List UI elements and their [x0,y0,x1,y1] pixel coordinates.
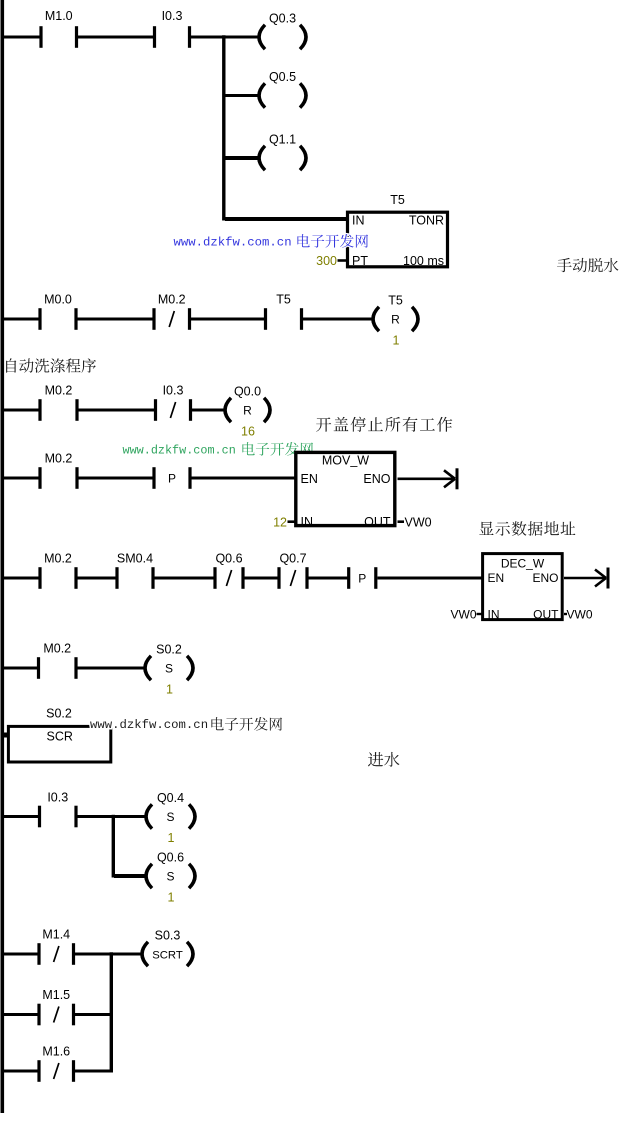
svg-text:M0.2: M0.2 [43,642,71,656]
wire [78,36,153,39]
svg-text:S0.2: S0.2 [156,643,182,657]
wire [3,733,8,738]
contact Q0.6 [213,552,244,589]
contact M0.2 [38,552,77,589]
wire [245,577,280,580]
svg-text:Q0.4: Q0.4 [157,791,184,805]
svg-text:DEC_W: DEC_W [501,557,545,571]
annotation 进水 [368,752,399,767]
svg-text:PT: PT [352,254,368,268]
svg-text:1: 1 [166,683,173,697]
svg-text:300: 300 [316,254,337,268]
svg-text:Q0.5: Q0.5 [269,70,296,84]
wire [114,874,145,878]
watermark 电子开发网 (dark) [211,717,282,731]
contact SM0.4 [115,552,154,589]
wire [155,577,216,580]
contact M1.0 [39,9,78,48]
svg-text:R: R [243,404,252,418]
svg-text:P: P [168,472,176,486]
svg-text:ENO: ENO [532,571,558,585]
annotation 手动脱水 [557,258,618,272]
contact M0.2 [152,293,191,330]
wire [3,667,39,670]
svg-text:Q0.0: Q0.0 [234,385,261,399]
svg-text:Q0.6: Q0.6 [157,851,184,865]
contact P [347,567,377,589]
timer T5 TONR box [348,193,448,268]
contact M1.4 [37,928,75,965]
svg-text:M1.5: M1.5 [42,988,70,1002]
SCR box S0.2 [8,707,110,763]
coil Q0.3 [259,12,306,50]
svg-text:T5: T5 [388,294,403,308]
wire [303,318,373,321]
svg-text:TONR: TONR [409,214,444,228]
svg-text:M1.6: M1.6 [42,1045,70,1059]
coil S0.2 [145,643,193,697]
svg-text:M0.2: M0.2 [44,552,72,566]
branch node [112,815,115,878]
svg-text:SCR: SCR [47,730,73,744]
wire [3,1013,40,1016]
svg-text:M1.0: M1.0 [45,9,73,23]
svg-text:12: 12 [273,516,287,530]
wire [225,94,259,97]
branch node [110,952,113,1072]
wire [192,409,225,412]
svg-text:R: R [391,313,400,327]
coil Q1.1 [259,133,306,171]
svg-text:T5: T5 [390,193,405,207]
coil Q0.6 [146,851,195,905]
left power rail [1,0,5,1113]
wire [288,520,296,523]
coil T5 [373,294,418,348]
wire [3,1070,40,1073]
svg-text:100 ms: 100 ms [403,254,444,268]
svg-text:VW0: VW0 [567,608,593,622]
svg-text:M0.2: M0.2 [158,293,186,307]
svg-text:M1.4: M1.4 [42,928,70,942]
wire [225,156,259,160]
wire [75,1070,112,1073]
svg-text:I0.3: I0.3 [47,791,68,805]
contact M0.0 [38,293,77,330]
svg-text:IN: IN [488,608,500,622]
coil Q0.4 [146,791,195,845]
wire [75,1013,112,1016]
wire [3,953,40,956]
watermark 电子开发网 (blue) [297,234,368,248]
open branch arrow [444,468,459,489]
svg-text:M0.2: M0.2 [45,384,73,398]
wire [78,577,118,580]
svg-text:Q0.3: Q0.3 [269,12,296,26]
watermark 电子开发网 (green) [242,442,313,456]
contact M0.2 [38,384,78,421]
contact M0.2 [38,452,78,489]
svg-text:P: P [358,572,366,586]
svg-text:Q0.6: Q0.6 [215,552,242,566]
svg-text:EN: EN [488,571,505,585]
wire [309,577,350,580]
contact T5 [264,293,303,330]
contact I0.3 [154,384,192,421]
svg-text:S: S [166,810,174,824]
contact M1.6 [37,1045,75,1082]
wire [79,477,155,480]
svg-text:SCRT: SCRT [152,949,183,961]
svg-text:1: 1 [168,891,175,905]
svg-text:ENO: ENO [363,472,390,486]
svg-text:S: S [165,662,173,676]
annotation 显示数据地址 [479,521,575,536]
svg-text:www.dzkfw.com.cn: www.dzkfw.com.cn [123,444,236,458]
svg-text:M0.2: M0.2 [45,452,73,466]
MOV_W box [296,452,395,528]
svg-text:S0.3: S0.3 [155,929,181,943]
svg-text:Q0.7: Q0.7 [279,552,306,566]
svg-text:IN: IN [352,214,365,228]
annotation 开盖停止所有工作 [316,417,452,432]
wire [398,477,454,480]
svg-text:S: S [166,870,174,884]
contact M1.5 [37,988,75,1025]
wire [192,477,297,480]
wire [378,577,484,580]
wire [3,318,40,321]
wire [564,577,605,580]
wire [3,409,40,412]
wire [477,613,483,615]
wire [79,409,156,412]
svg-text:MOV_W: MOV_W [322,454,369,468]
DEC_W box [483,554,563,622]
wire [78,667,146,670]
svg-text:M0.0: M0.0 [44,293,72,307]
svg-text:I0.3: I0.3 [163,384,184,398]
wire [3,815,40,818]
svg-text:OUT: OUT [533,608,559,622]
contact Q0.7 [277,552,308,589]
svg-text:VW0: VW0 [405,516,432,530]
wire [3,36,40,39]
contact I0.3 [38,791,78,828]
svg-text:SM0.4: SM0.4 [117,552,153,566]
svg-text:Q1.1: Q1.1 [269,133,296,147]
wire [78,815,146,818]
svg-text:S0.2: S0.2 [46,707,72,721]
contact M0.2 [37,642,78,679]
contact I0.3 [153,9,191,48]
wire [75,953,142,956]
wire [398,520,405,523]
svg-text:1: 1 [393,334,400,348]
svg-text:1: 1 [168,831,175,845]
branch node [222,35,225,220]
wire [225,217,347,221]
svg-text:IN: IN [301,515,314,529]
svg-text:16: 16 [241,425,255,439]
svg-text:www.dzkfw.com.cn: www.dzkfw.com.cn [174,236,292,250]
svg-text:I0.3: I0.3 [162,9,183,23]
svg-text:VW0: VW0 [450,608,476,622]
wire [191,36,259,39]
svg-text:OUT: OUT [364,515,391,529]
contact P [152,467,191,489]
open branch arrow [595,568,610,589]
svg-text:T5: T5 [276,293,291,307]
wire [338,259,347,262]
coil Q0.0 [225,385,270,439]
wire [564,613,567,615]
wire [3,577,40,580]
coil S0.3 [142,929,193,967]
wire [3,477,40,480]
wire [191,318,266,321]
coil Q0.5 [259,70,306,108]
svg-text:www.dzkfw.com.cn: www.dzkfw.com.cn [90,718,208,732]
svg-text:EN: EN [301,472,318,486]
wire [78,318,155,321]
annotation 自动洗涤程序 [6,358,96,372]
